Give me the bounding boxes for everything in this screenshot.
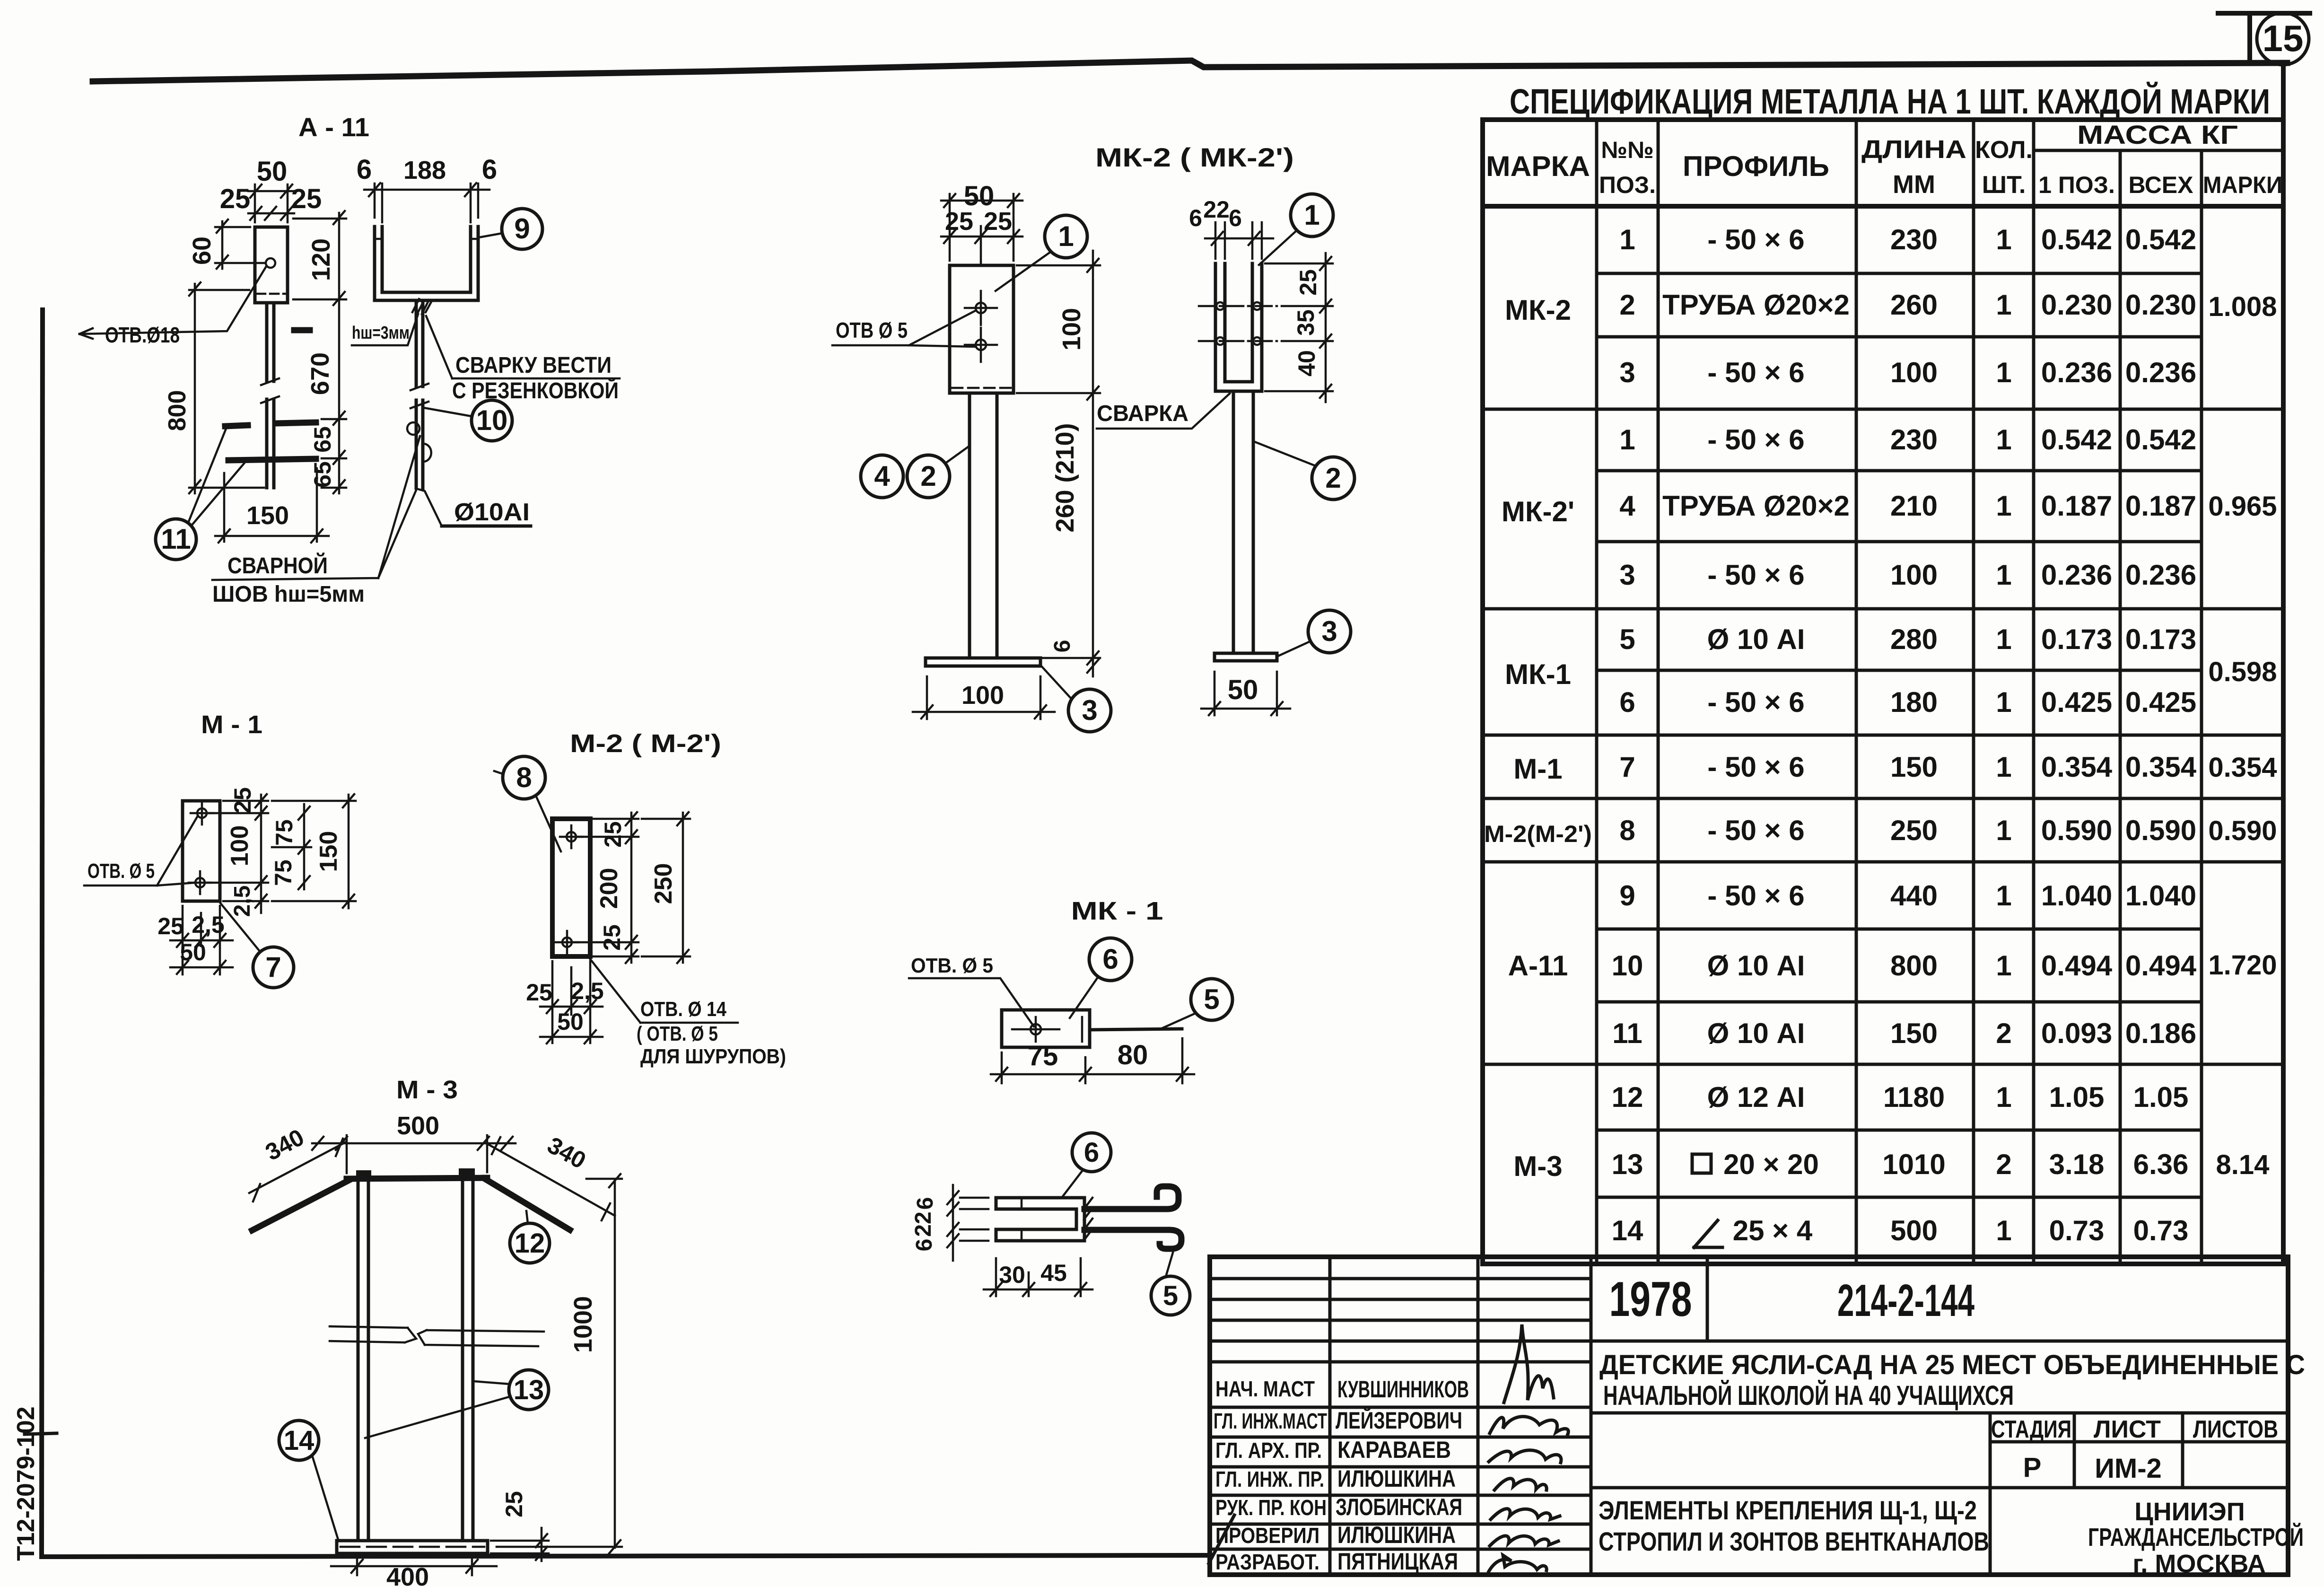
MK-2 tube pos.2 (left element) [970, 393, 997, 658]
MK-2 title [1095, 142, 1294, 172]
svg-text:СВАРКА: СВАРКА [1097, 401, 1188, 426]
svg-text:0.73: 0.73 [2133, 1215, 2189, 1246]
svg-text:ПЯТНИЦКАЯ: ПЯТНИЦКАЯ [1337, 1548, 1458, 1575]
svg-text:Ø 10 АI: Ø 10 АI [1707, 950, 1805, 982]
svg-text:14: 14 [284, 1425, 315, 1456]
svg-text:3: 3 [1619, 357, 1635, 388]
M-1 dim 25/25 bottom [157, 906, 233, 974]
svg-text:15: 15 [2263, 18, 2304, 59]
svg-text:80: 80 [1118, 1040, 1148, 1070]
svg-text:ГРАЖДАНСЕЛЬСТРОЙ: ГРАЖДАНСЕЛЬСТРОЙ [2088, 1523, 2304, 1552]
svg-text:250: 250 [650, 863, 677, 904]
svg-text:6: 6 [1229, 205, 1242, 231]
svg-text:1: 1 [1304, 199, 1319, 231]
spec table data rows [1612, 224, 2197, 1246]
MK-2' label svarka [1097, 394, 1230, 429]
svg-text:45: 45 [1040, 1260, 1067, 1286]
svg-text:0.186: 0.186 [2125, 1017, 2196, 1049]
svg-text:С РЕЗЕНКОВКОЙ: С РЕЗЕНКОВКОЙ [452, 377, 619, 403]
svg-text:1: 1 [1619, 224, 1635, 255]
svg-text:1: 1 [1996, 880, 2011, 912]
MK-1 rod pos.5 (top view) [1090, 1029, 1182, 1030]
A-11 label hsh=3mm [352, 314, 418, 345]
svg-text:1: 1 [1996, 490, 2011, 522]
svg-text:ПОЗ.: ПОЗ. [1599, 172, 1656, 198]
svg-text:ММ: ММ [1893, 170, 1935, 199]
svg-text:100: 100 [1890, 559, 1938, 591]
title block project name [1599, 1350, 2305, 1411]
MK-2 dim 25 25 (plate top) [941, 207, 1022, 263]
M-3 callout 13 [365, 1370, 549, 1438]
A-11 rod pos.10 (side view, with break) [411, 300, 428, 488]
svg-text:1: 1 [1058, 220, 1074, 252]
svg-text:40: 40 [1293, 350, 1320, 377]
svg-text:6: 6 [482, 154, 497, 185]
svg-text:1: 1 [1996, 1081, 2011, 1113]
svg-text:ЦНИИЭП: ЦНИИЭП [2134, 1498, 2245, 1526]
M-3 callout 14 [279, 1420, 339, 1541]
svg-text:1010: 1010 [1882, 1149, 1945, 1180]
MK-2' callout 3 [1277, 610, 1351, 657]
svg-text:ЛИСТОВ: ЛИСТОВ [2193, 1416, 2278, 1443]
title block grid [1210, 1257, 2288, 1575]
svg-text:1: 1 [1996, 686, 2011, 718]
svg-text:ОТВ.Ø18: ОТВ.Ø18 [105, 323, 180, 347]
svg-text:440: 440 [1890, 880, 1938, 912]
svg-text:МК-2: МК-2 [1505, 294, 1571, 326]
svg-text:25: 25 [600, 821, 626, 848]
svg-text:50: 50 [180, 939, 206, 965]
M-2 plate pos.8 [552, 819, 590, 956]
MK-2' tube pos.4 [1233, 391, 1253, 653]
svg-text:- 50 × 6: - 50 × 6 [1707, 424, 1804, 456]
svg-text:1000: 1000 [569, 1296, 597, 1353]
svg-text:ЛИСТ: ЛИСТ [2094, 1416, 2161, 1443]
M-3 dim 340 (left slope) [249, 1124, 345, 1201]
svg-text:0.173: 0.173 [2041, 623, 2112, 655]
svg-text:5: 5 [1163, 1280, 1178, 1311]
frame bottom border line [42, 1555, 1211, 1557]
svg-text:6: 6 [1189, 205, 1202, 231]
M-3 callout 12 [510, 1211, 550, 1263]
svg-text:КУВШИННИКОВ: КУВШИННИКОВ [1337, 1376, 1469, 1403]
frame left margin tick [25, 1433, 57, 1434]
svg-text:ГЛ. ИНЖ.МАСТ: ГЛ. ИНЖ.МАСТ [1214, 1409, 1327, 1433]
svg-text:150: 150 [1890, 1017, 1938, 1049]
svg-text:КАРАВАЕВ: КАРАВАЕВ [1337, 1437, 1451, 1463]
svg-text:СВАРКУ ВЕСТИ: СВАРКУ ВЕСТИ [455, 353, 612, 378]
svg-text:СПЕЦИФИКАЦИЯ МЕТАЛЛА НА 1 ШТ: СПЕЦИФИКАЦИЯ МЕТАЛЛА НА 1 ШТ. КАЖДОЙ МАР… [1510, 81, 2270, 121]
svg-text:0.590: 0.590 [2041, 815, 2112, 846]
MK-1 callout 5 (top view) [1160, 979, 1232, 1029]
svg-text:МАССА КГ: МАССА КГ [2077, 120, 2238, 149]
svg-text:75: 75 [1028, 1041, 1058, 1071]
M-1 holes d5 [189, 802, 213, 894]
svg-text:25: 25 [945, 207, 973, 236]
square profile symbol row 13 [1692, 1154, 1711, 1173]
svg-text:1: 1 [1996, 815, 2011, 846]
svg-text:0.542: 0.542 [2041, 424, 2112, 456]
svg-text:188: 188 [403, 156, 446, 184]
MK-1 dim 30/45 (side view) [984, 1258, 1092, 1296]
A-11 label svarku vesti s rezenkovkoy [426, 316, 620, 403]
svg-text:22: 22 [1203, 196, 1230, 223]
A-11 callout 9 [479, 209, 542, 249]
svg-text:ЛЕЙЗЕРОВИЧ: ЛЕЙЗЕРОВИЧ [1336, 1407, 1462, 1434]
svg-text:М-3: М-3 [1513, 1150, 1562, 1182]
M-2 dim 50 bottom [540, 1008, 603, 1043]
angle profile symbol row 14 [1694, 1220, 1722, 1247]
A-11 rod pos.10 (front view, with break) [261, 303, 279, 488]
M-3 dim 500 (top) [312, 1112, 515, 1173]
svg-text:1: 1 [1996, 950, 2011, 982]
svg-text:СТАДИЯ: СТАДИЯ [1991, 1416, 2071, 1443]
MK-2' base plate pos.3 [1214, 653, 1277, 661]
A-11 dim 25 25 [220, 184, 322, 220]
svg-text:0.230: 0.230 [2125, 289, 2196, 321]
M-2 callout 8 [494, 756, 561, 851]
A-11 title [298, 112, 369, 142]
svg-text:6: 6 [357, 154, 372, 185]
frame left border line [42, 310, 43, 1557]
title block corner diagonal [1209, 1515, 1234, 1563]
svg-text:260: 260 [1890, 289, 1938, 321]
svg-text:Ø 12 АI: Ø 12 АI [1707, 1081, 1805, 1113]
svg-text:1: 1 [1996, 289, 2011, 321]
svg-text:10: 10 [1612, 950, 1643, 982]
svg-text:1: 1 [1996, 1215, 2011, 1246]
svg-text:230: 230 [1890, 424, 1938, 456]
svg-text:ОТВ. Ø 5: ОТВ. Ø 5 [911, 954, 993, 977]
svg-text:13: 13 [1612, 1149, 1643, 1180]
A-11 label OTB d18 with leader [79, 266, 266, 347]
svg-text:2: 2 [1996, 1017, 2011, 1049]
svg-text:- 50 × 6: - 50 × 6 [1707, 357, 1804, 388]
svg-text:МАРКИ: МАРКИ [2203, 172, 2282, 198]
svg-text:2: 2 [920, 460, 936, 492]
MK-2 holes d5 in plate [965, 291, 997, 362]
M-1 dim chain 25/100/25 [206, 787, 268, 917]
section divider rows (full width) [1483, 409, 2283, 1064]
svg-text:СВАРНОЙ: СВАРНОЙ [227, 552, 328, 579]
svg-text:120: 120 [307, 238, 335, 281]
svg-text:1: 1 [1996, 224, 2011, 255]
svg-text:ИЛЮШКИНА: ИЛЮШКИНА [1337, 1522, 1456, 1548]
M-1 plate pos.7 [183, 801, 220, 901]
svg-text:ЭЛЕМЕНТЫ КРЕПЛЕНИЯ Щ-1, Щ-2: ЭЛЕМЕНТЫ КРЕПЛЕНИЯ Щ-1, Щ-2 [1599, 1495, 1977, 1525]
svg-text:г. МОСКВА: г. МОСКВА [2132, 1550, 2265, 1578]
svg-text:500: 500 [397, 1112, 439, 1140]
svg-text:3: 3 [1321, 615, 1337, 647]
svg-text:25: 25 [984, 207, 1012, 236]
svg-text:50: 50 [557, 1008, 584, 1035]
svg-text:25: 25 [501, 1491, 527, 1517]
spec table grid [1483, 63, 2283, 1264]
svg-text:1978: 1978 [1609, 1272, 1692, 1327]
svg-text:8: 8 [1619, 815, 1635, 846]
svg-text:65: 65 [309, 461, 336, 488]
svg-text:35: 35 [1293, 309, 1319, 336]
svg-text:800: 800 [164, 390, 191, 431]
svg-text:5: 5 [1619, 623, 1635, 655]
svg-text:22: 22 [911, 1211, 936, 1236]
svg-text:- 50 × 6: - 50 × 6 [1707, 686, 1804, 718]
svg-text:Ø 10 АI: Ø 10 АI [1707, 1017, 1805, 1049]
M-1 title [201, 710, 262, 739]
A-11 crossbar pos.11 lower [228, 459, 316, 460]
A-11 section dash between views [294, 327, 310, 333]
MK-2' dim 50 (base) [1201, 672, 1290, 715]
svg-text:0.494: 0.494 [2125, 950, 2197, 982]
M-2 title [570, 729, 721, 758]
svg-text:ПРОФИЛЬ: ПРОФИЛЬ [1683, 150, 1829, 182]
svg-text:25: 25 [229, 787, 256, 814]
svg-text:13: 13 [514, 1375, 544, 1405]
svg-text:М-1: М-1 [1513, 753, 1562, 785]
svg-text:0.230: 0.230 [2041, 289, 2112, 321]
M-3 title [396, 1076, 458, 1104]
svg-text:0.542: 0.542 [2125, 224, 2196, 255]
svg-text:0.236: 0.236 [2125, 357, 2196, 388]
outer box [1483, 63, 2283, 1264]
M-3 break lines [330, 1326, 544, 1346]
M-2 holes [556, 825, 583, 954]
MK-1 rod pos.5 lower with hook [1084, 1230, 1181, 1249]
svg-text:3: 3 [1619, 559, 1635, 591]
svg-text:6: 6 [1102, 943, 1118, 975]
svg-text:ШОВ hш=5мм: ШОВ hш=5мм [212, 582, 365, 607]
svg-text:0.425: 0.425 [2041, 686, 2112, 718]
svg-text:7: 7 [1619, 751, 1635, 783]
svg-text:100: 100 [1890, 357, 1938, 388]
sheet corner mark top right [2218, 13, 2310, 63]
M-3 dim 25 (base thickness) [491, 1491, 549, 1561]
header bottom line [1483, 204, 2283, 209]
svg-text:2: 2 [1996, 1149, 2011, 1180]
svg-text:Р: Р [2023, 1452, 2042, 1483]
inner row lines (pos rows) [1597, 273, 2202, 1197]
MK-1 callout 6 (side view) [1063, 1133, 1111, 1196]
M-1 label OTB d5 [84, 816, 198, 886]
svg-text:0.590: 0.590 [2125, 815, 2196, 846]
MK-2 dim 100 (left base) [913, 676, 1055, 719]
svg-text:НАЧ. МАСТ: НАЧ. МАСТ [1215, 1377, 1315, 1401]
MK-1 title [1071, 897, 1163, 925]
svg-text:75: 75 [270, 859, 297, 886]
M-2 dim 25/25 bottom [526, 961, 604, 1043]
svg-text:РАЗРАБОТ.: РАЗРАБОТ. [1215, 1550, 1319, 1574]
svg-text:ОТВ. Ø 14: ОТВ. Ø 14 [640, 998, 726, 1021]
svg-text:6: 6 [913, 1197, 938, 1210]
svg-text:3: 3 [1082, 694, 1097, 726]
svg-text:ОТВ. Ø 5: ОТВ. Ø 5 [87, 859, 155, 883]
svg-text:6: 6 [912, 1239, 937, 1252]
title block roles column [1214, 1377, 1327, 1574]
M-2 dim 250 [642, 812, 690, 963]
svg-text:25: 25 [291, 184, 322, 214]
svg-text:50: 50 [257, 156, 288, 187]
MK-2 callout 3 (left base) [1040, 665, 1111, 732]
M-1 dim 150 [272, 794, 356, 908]
svg-text:8: 8 [516, 762, 532, 793]
MK-1 rod pos.5 upper with hook [1084, 1186, 1179, 1209]
spec table mark mass column [2208, 291, 2277, 1180]
svg-text:0.73: 0.73 [2049, 1215, 2105, 1246]
svg-text:25 × 4: 25 × 4 [1733, 1215, 1813, 1246]
MK-1 label OTB d5 [909, 954, 1034, 1026]
svg-text:МК - 1: МК - 1 [1071, 897, 1163, 925]
A-11 dim 50 (plate width) [248, 156, 294, 222]
svg-text:1: 1 [1996, 357, 2011, 388]
A-11 label d10AI [418, 489, 531, 526]
svg-text:0.542: 0.542 [2125, 424, 2196, 456]
svg-text:0.354: 0.354 [2208, 752, 2277, 783]
title block names column [1336, 1376, 1469, 1575]
svg-text:0.236: 0.236 [2041, 559, 2112, 591]
svg-text:ТРУБА Ø20×2: ТРУБА Ø20×2 [1662, 289, 1850, 321]
MK-1 plate pos.6 (top view) [1002, 1010, 1090, 1047]
svg-text:М - 3: М - 3 [396, 1076, 458, 1104]
svg-text:0.590: 0.590 [2208, 815, 2277, 846]
svg-text:670: 670 [306, 352, 334, 395]
svg-text:65: 65 [309, 426, 336, 453]
svg-text:0.542: 0.542 [2041, 224, 2112, 255]
svg-text:25: 25 [1295, 269, 1321, 296]
vertical lines [1597, 120, 2034, 1264]
svg-text:М-2 ( М-2'): М-2 ( М-2') [570, 729, 721, 758]
svg-text:200: 200 [595, 868, 623, 909]
svg-text:2: 2 [1325, 462, 1341, 494]
svg-text:КОЛ.: КОЛ. [1975, 136, 2033, 164]
svg-text:0.965: 0.965 [2208, 491, 2277, 522]
svg-text:0.187: 0.187 [2041, 490, 2112, 522]
MK-2' hole centerlines [1199, 302, 1277, 345]
MK-1 fork pos.6 (side view) [996, 1198, 1084, 1241]
A-11 right dim chain 120/670/65/65 [293, 211, 346, 493]
svg-text:МК-2': МК-2' [1502, 496, 1574, 527]
svg-text:1: 1 [1996, 623, 2011, 655]
svg-text:800: 800 [1890, 950, 1938, 982]
svg-text:А - 11: А - 11 [298, 112, 369, 142]
svg-text:0.173: 0.173 [2125, 623, 2196, 655]
svg-text:214-2-144: 214-2-144 [1837, 1275, 1975, 1326]
MK-2 plate pos.1 (left element) [950, 265, 1013, 393]
svg-text:ВСЕХ: ВСЕХ [2128, 172, 2193, 198]
svg-text:9: 9 [514, 213, 530, 245]
MK-1 callout 6 (top view) [1070, 938, 1132, 1018]
svg-text:340: 340 [261, 1124, 308, 1166]
svg-text:1.040: 1.040 [2041, 880, 2112, 912]
svg-text:М-2(М-2'): М-2(М-2') [1484, 821, 1592, 847]
svg-text:Ø 10 АI: Ø 10 АI [1707, 623, 1805, 655]
svg-text:0.494: 0.494 [2041, 950, 2113, 982]
svg-text:1.05: 1.05 [2049, 1081, 2105, 1113]
svg-text:СТРОПИЛ И ЗОНТОВ ВЕНТКАНАЛО: СТРОПИЛ И ЗОНТОВ ВЕНТКАНАЛОВ [1599, 1526, 1989, 1556]
spec table header texts [1486, 120, 2282, 199]
svg-text:150: 150 [1890, 751, 1938, 783]
svg-text:ИЛЮШКИНА: ИЛЮШКИНА [1337, 1465, 1456, 1492]
svg-text:- 50 × 6: - 50 × 6 [1707, 559, 1804, 591]
svg-text:6: 6 [1619, 686, 1635, 718]
A-11 dim 6 188 6 (channel) [357, 154, 497, 222]
MK-1 weld at fork end [1084, 1198, 1092, 1240]
svg-text:25: 25 [599, 924, 625, 951]
svg-text:0.598: 0.598 [2208, 657, 2277, 687]
svg-text:М - 1: М - 1 [201, 710, 262, 739]
svg-text:4: 4 [1619, 490, 1635, 522]
svg-text:1180: 1180 [1883, 1081, 1945, 1113]
svg-text:ШТ.: ШТ. [1982, 171, 2026, 199]
MK-1 dim 6/22/6 (side view) [911, 1185, 988, 1261]
svg-text:ПРОВЕРИЛ: ПРОВЕРИЛ [1215, 1523, 1319, 1548]
svg-text:( ОТВ. Ø 5: ( ОТВ. Ø 5 [637, 1022, 718, 1045]
svg-text:А-11: А-11 [1508, 950, 1568, 982]
svg-text:340: 340 [543, 1131, 590, 1174]
svg-text:НАЧАЛЬНОЙ ШКОЛОЙ НА 40 УЧАЩ: НАЧАЛЬНОЙ ШКОЛОЙ НА 40 УЧАЩИХСЯ [1603, 1380, 2014, 1411]
MK-2' channel pos.1 (right element) [1215, 263, 1262, 391]
svg-text:2,5: 2,5 [192, 912, 225, 938]
M-3 rod pos.12 (roof) [252, 1178, 570, 1230]
title block year 1978 [1609, 1272, 1692, 1327]
MK-2' vertical dim 25/35/40 [1265, 253, 1333, 402]
svg-text:10: 10 [476, 404, 508, 436]
A-11 dim 800 (left overall) [164, 282, 264, 493]
svg-text:0.236: 0.236 [2041, 357, 2112, 388]
svg-text:hш=3мм: hш=3мм [352, 323, 410, 343]
A-11 plate pos.9 (front view) [255, 227, 288, 303]
A-11 dim 150 (crossbar) [215, 468, 329, 543]
svg-text:2: 2 [1619, 289, 1635, 321]
title block stage/sheet headers [1991, 1416, 2278, 1484]
svg-text:100: 100 [1057, 308, 1086, 351]
MK-2' callout 1 [1259, 194, 1333, 265]
svg-text:50: 50 [1228, 675, 1258, 705]
title block organization [2088, 1498, 2304, 1578]
svg-text:2,5: 2,5 [230, 886, 255, 917]
svg-text:400: 400 [386, 1563, 429, 1587]
MK-2 vertical dim 100 / 260(210) / 6 [1017, 251, 1100, 676]
svg-text:12: 12 [515, 1228, 545, 1259]
svg-text:8.14: 8.14 [2216, 1149, 2270, 1180]
svg-text:6.36: 6.36 [2133, 1149, 2189, 1180]
svg-text:1: 1 [1996, 424, 2011, 456]
M-1 callout 7 [220, 903, 294, 988]
svg-text:ТРУБА Ø20×2: ТРУБА Ø20×2 [1662, 490, 1850, 522]
svg-text:Т12-2079-102: Т12-2079-102 [12, 1406, 40, 1561]
svg-text:280: 280 [1890, 623, 1938, 655]
M-3 dim 340 (right slope) [488, 1131, 615, 1220]
svg-text:- 50 × 6: - 50 × 6 [1707, 880, 1804, 912]
svg-text:3.18: 3.18 [2049, 1149, 2105, 1180]
svg-text:МК-1: МК-1 [1505, 658, 1571, 690]
M-2 label OTB d14 / OTB d5 dlya shurupov [587, 956, 786, 1068]
A-11 callout 10 [424, 400, 512, 441]
MK-2 label OTB d5 (left) [832, 311, 975, 347]
svg-text:0.093: 0.093 [2041, 1017, 2112, 1049]
svg-text:500: 500 [1890, 1215, 1938, 1246]
svg-text:2,5: 2,5 [571, 978, 604, 1004]
svg-text:6: 6 [1050, 640, 1075, 653]
svg-text:ДЛИНА: ДЛИНА [1861, 135, 1966, 164]
svg-text:0.236: 0.236 [2125, 559, 2196, 591]
svg-text:МК-2 ( МК-2'): МК-2 ( МК-2') [1095, 142, 1294, 172]
svg-text:180: 180 [1890, 686, 1938, 718]
MK-2' dim 6 22 6 (top) [1189, 196, 1273, 259]
svg-text:25: 25 [526, 979, 552, 1006]
MK-2 callout 1 (left) [996, 215, 1087, 291]
svg-text:ЗЛОБИНСКАЯ: ЗЛОБИНСКАЯ [1336, 1494, 1462, 1520]
spec table title [1510, 81, 2270, 121]
